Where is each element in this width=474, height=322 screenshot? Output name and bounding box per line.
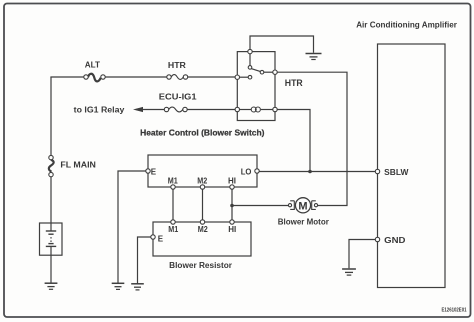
svg-text:M1: M1 <box>168 176 178 185</box>
svg-text:to IG1 Relay: to IG1 Relay <box>74 105 125 114</box>
terminal SBLW <box>375 169 379 173</box>
battery <box>40 223 63 255</box>
svg-text:SBLW: SBLW <box>384 168 409 177</box>
ground: heater control E <box>112 283 125 289</box>
wire: HI junction to motor <box>232 205 288 207</box>
ground: battery <box>45 283 58 289</box>
wire: HTR net, switch to blower motor <box>277 72 347 205</box>
blower motor M1 <box>288 198 317 213</box>
wire: battery positive riser (vertical main feed) <box>50 77 52 155</box>
terminal M1 (switch) <box>171 185 175 189</box>
wire: GND to ground <box>349 240 375 269</box>
wire: coil to SBLW net <box>277 110 310 171</box>
svg-text:M2: M2 <box>198 225 208 234</box>
ground: blower switch <box>306 54 322 60</box>
terminal LO <box>255 169 259 173</box>
svg-text:Blower Motor: Blower Motor <box>278 218 329 227</box>
wire: battery negative to ground <box>50 255 52 283</box>
terminal M1 (resistor) <box>171 220 175 224</box>
svg-text:E: E <box>151 167 157 176</box>
svg-text:LO: LO <box>241 168 252 177</box>
fusible link FL MAIN <box>49 155 54 176</box>
svg-text:M2: M2 <box>197 176 207 185</box>
switch S1 (blower switch contacts) <box>235 49 277 79</box>
svg-text:GND: GND <box>384 236 406 245</box>
svg-text:E: E <box>158 234 164 243</box>
wire: ECU-IG1 branch with arrow to IG1 relay <box>133 107 235 112</box>
svg-text:FL MAIN: FL MAIN <box>60 160 96 169</box>
wire: FL MAIN to battery <box>50 177 52 223</box>
wire: switch top terminal to ground <box>250 36 314 53</box>
svg-text:HI: HI <box>228 225 236 234</box>
terminal HI (switch) <box>230 185 234 189</box>
node: junction HI to motor <box>230 204 234 208</box>
svg-text:Blower Resistor: Blower Resistor <box>169 261 232 270</box>
ground: amplifier GND <box>342 269 356 275</box>
terminal M2 (switch) <box>200 185 204 189</box>
fuse ECU-IG1 <box>164 107 187 112</box>
svg-text:HTR: HTR <box>285 78 303 89</box>
terminal HI (resistor) <box>230 220 234 224</box>
wire: resistor E to body ground <box>138 237 151 284</box>
wire: M2 net <box>202 189 204 220</box>
svg-text:M1: M1 <box>168 225 178 234</box>
svg-text:Air Conditioning Amplifier: Air Conditioning Amplifier <box>356 20 457 30</box>
air conditioning amplifier U1 <box>378 44 446 288</box>
blower resistor box <box>153 222 251 256</box>
fusible link ALT <box>84 74 105 82</box>
svg-text:HTR: HTR <box>168 61 186 70</box>
svg-text:E126102E01: E126102E01 <box>442 308 467 314</box>
terminal E (heater control) <box>146 169 150 173</box>
coil L1 (switch illumination coil) <box>235 107 277 112</box>
svg-text:ECU-IG1: ECU-IG1 <box>159 93 197 102</box>
fuse HTR <box>167 75 188 80</box>
node: junction on SBLW wire <box>308 170 312 174</box>
wire: E to body ground (heater control) <box>118 171 146 283</box>
terminal E (resistor) <box>151 235 155 239</box>
wire: M1 net <box>172 189 174 220</box>
svg-text:Heater Control (Blower Switch): Heater Control (Blower Switch) <box>140 128 265 138</box>
wire: LO to SBLW <box>259 171 375 173</box>
wire: fused feed row (battery to switch) <box>50 76 83 78</box>
heater control blower switch box <box>237 52 275 121</box>
ground: blower resistor E <box>131 284 144 290</box>
wire: HI net <box>231 189 233 220</box>
svg-text:M: M <box>298 201 307 213</box>
terminal GND <box>375 237 379 241</box>
svg-text:ALT: ALT <box>85 60 100 69</box>
heater control connector box (E LO M1 M2 HI) <box>148 155 257 187</box>
svg-text:HI: HI <box>228 176 236 185</box>
terminal M2 (resistor) <box>200 220 204 224</box>
